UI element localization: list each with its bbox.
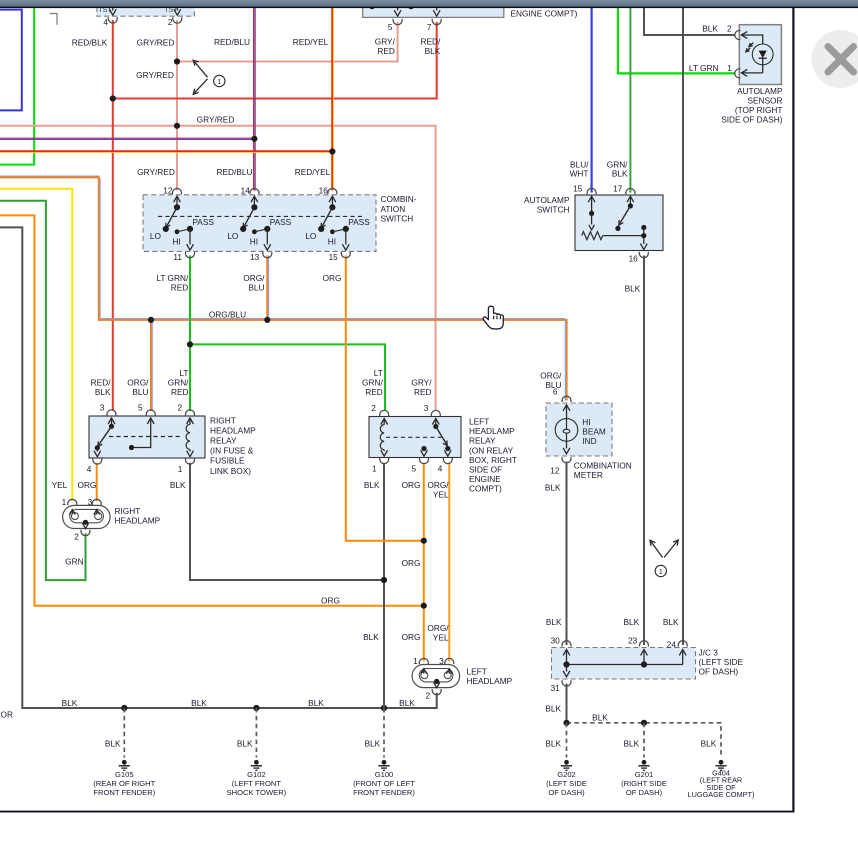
svg-text:(REAR OF RIGHT: (REAR OF RIGHT xyxy=(93,779,155,788)
right headlamp pin 2 xyxy=(74,520,90,542)
label ORG/BLU below pin 13 xyxy=(243,273,265,293)
label RIGHT HEADLAMP RELAY (IN FUSE & FUSIBLE LINK BOX) xyxy=(210,415,256,476)
svg-text:LUGGAGE COMPT): LUGGAGE COMPT) xyxy=(688,790,755,799)
svg-text:RED/BLK: RED/BLK xyxy=(72,38,108,48)
wire ORG from left edge to left headlamp feed xyxy=(0,215,424,605)
pin 7 of engine-compt box xyxy=(427,4,441,32)
node junction ORG/BLU at (267.3,319.9) xyxy=(264,317,270,323)
svg-text:BLK: BLK xyxy=(308,698,324,708)
label RIGHT HEADLAMP xyxy=(115,506,161,526)
svg-text:FRONT FENDER): FRONT FENDER) xyxy=(353,788,415,797)
label RED/YEL above pin 16 xyxy=(295,167,331,177)
svg-text:17: 17 xyxy=(613,184,623,194)
svg-text:(FRONT OF LEFT: (FRONT OF LEFT xyxy=(353,779,415,788)
autolamp switch box xyxy=(575,195,663,251)
label BLK mid left relay wire xyxy=(363,632,379,642)
svg-text:2: 2 xyxy=(74,532,79,542)
svg-text:SWITCH: SWITCH xyxy=(381,214,414,224)
svg-text:BLK: BLK xyxy=(545,738,561,748)
svg-text:23: 23 xyxy=(628,636,638,646)
svg-text:G102: G102 xyxy=(247,770,266,779)
label ORG/BLU above pin 6 xyxy=(540,370,562,390)
label LEFT HEADLAMP RELAY (ON RELAY BOX, RIGHT SIDE OF ENGINE COMPT) xyxy=(469,417,517,494)
svg-text:2: 2 xyxy=(371,403,376,413)
svg-text:RED: RED xyxy=(365,387,383,397)
label BLK on splice bus xyxy=(592,712,608,722)
autolamp switch pin 15 with resistor xyxy=(573,184,596,230)
svg-text:OF DASH): OF DASH) xyxy=(699,667,739,677)
label BLK drop G404 xyxy=(701,738,717,748)
connector box ENGINE COMPT (top right) xyxy=(363,0,504,17)
label BLK bus 4 xyxy=(399,698,415,708)
svg-text:3: 3 xyxy=(439,656,444,666)
label HI BEAM IND xyxy=(582,417,606,446)
label RED/BLU above pin 14 xyxy=(217,167,253,177)
svg-text:RELAY: RELAY xyxy=(210,436,237,446)
label BLK below pin 16 xyxy=(625,284,641,294)
svg-text:14: 14 xyxy=(241,186,251,196)
svg-text:BLK: BLK xyxy=(624,738,640,748)
node dot inside engine-compt box 2 xyxy=(408,3,414,9)
svg-text:GRY/: GRY/ xyxy=(411,377,432,387)
svg-text:HI: HI xyxy=(582,417,590,427)
label BLU/WHT xyxy=(570,159,590,178)
svg-text:RED: RED xyxy=(171,282,189,292)
label RED/BLK (pin 7) xyxy=(420,36,441,56)
wire RED/BLK from pin 7 xyxy=(113,22,437,99)
pin 4 of header box xyxy=(103,4,117,27)
wire GRY/RED horizontal branch to left relay xyxy=(0,126,436,411)
right relay pin 5 common xyxy=(129,403,155,450)
wire BLK right vertical to J/C 3 pin 24 xyxy=(682,7,684,645)
label BLK bus 1 xyxy=(62,698,78,708)
svg-text:SIDE OF: SIDE OF xyxy=(469,465,502,475)
footnote arrow 1 (top) xyxy=(193,60,225,94)
combination switch mechanical link (dashed) xyxy=(158,215,362,217)
pin 6 label of combination meter xyxy=(553,386,558,396)
svg-text:15: 15 xyxy=(573,184,583,194)
wire GRY/RED from pin 2 down to COMBINATION SWITCH pin 12 xyxy=(176,20,178,191)
node junction ORG/BLU at (151,319.9) xyxy=(148,317,154,323)
svg-text:RED/YEL: RED/YEL xyxy=(295,167,331,177)
svg-text:LINK BOX): LINK BOX) xyxy=(210,466,251,476)
node J/C3 junction at pin 23 xyxy=(641,661,647,667)
svg-text:3: 3 xyxy=(88,497,93,507)
svg-text:HEADLAMP: HEADLAMP xyxy=(210,425,256,435)
svg-text:4: 4 xyxy=(438,463,443,473)
svg-text:GRY/RED: GRY/RED xyxy=(197,115,235,125)
svg-text:GRY/: GRY/ xyxy=(375,36,396,46)
wire RED/YEL vertical to COMBINATION SWITCH pin 16 xyxy=(332,7,333,191)
wire GRN from left edge to RIGHT HEADLAMP pin 2 xyxy=(0,201,86,580)
wire LT GRN/RED branch to left relay pin 2 xyxy=(190,344,385,411)
svg-text:HI: HI xyxy=(172,236,180,246)
svg-text:BLK: BLK xyxy=(105,738,121,748)
svg-text:G202: G202 xyxy=(557,770,576,779)
wire ORG/YEL left relay pin 4 to LEFT HEADLAMP pin 3 xyxy=(448,463,450,661)
wire ORG right relay pin 4 to RIGHT HEADLAMP pin 3 xyxy=(96,463,98,501)
left headlamp pin 1 xyxy=(413,656,428,674)
wire BLK dashed drop to G102 xyxy=(255,708,257,758)
label ENGINE COMPT) xyxy=(511,9,578,19)
svg-text:HI: HI xyxy=(250,236,258,246)
svg-text:4: 4 xyxy=(87,464,92,474)
svg-text:LO: LO xyxy=(305,231,317,241)
svg-text:YEL: YEL xyxy=(433,489,449,499)
node junction RED/YEL at (332.4,151.4) xyxy=(329,148,335,154)
hi beam indicator lamp xyxy=(555,396,578,463)
wire RED/YEL horizontal from left edge xyxy=(0,151,332,152)
label GRN/BLK xyxy=(607,159,628,178)
label RED/BLK above right relay pin 3 xyxy=(91,377,112,397)
svg-text:RED/: RED/ xyxy=(91,377,112,387)
node junction ORG at (423.8,605.7) xyxy=(421,603,427,609)
svg-text:BLU: BLU xyxy=(248,282,264,292)
label BLK above J/C3 pin 24 xyxy=(663,617,679,627)
svg-text:(LEFT SIDE: (LEFT SIDE xyxy=(546,779,587,788)
left relay coil pin 2 to pin 1 xyxy=(371,403,389,473)
svg-text:ORG: ORG xyxy=(323,273,342,283)
svg-text:RED: RED xyxy=(414,387,432,397)
svg-text:GRY/RED: GRY/RED xyxy=(136,70,174,80)
svg-text:ORG/: ORG/ xyxy=(243,273,265,283)
svg-text:LEFT: LEFT xyxy=(469,417,489,427)
svg-text:OF DASH): OF DASH) xyxy=(548,788,585,797)
switch unit 2 (pins 14/13) with LO/HI/PASS xyxy=(227,186,291,262)
node junction LT GRN/RED at (190,344.4) xyxy=(187,341,193,347)
left relay pin 4 contact xyxy=(438,446,453,473)
ground G404 xyxy=(688,760,755,799)
label GRY/RED mid xyxy=(136,70,174,80)
svg-text:HEADLAMP: HEADLAMP xyxy=(469,426,515,436)
wire GRY/RED from pin 5 xyxy=(177,22,398,62)
label BLK bus 2 xyxy=(191,698,207,708)
svg-text:RIGHT: RIGHT xyxy=(210,415,236,425)
node junction BLK bus at G102 tap xyxy=(253,705,259,711)
wire BLK dashed splice bus to grounds xyxy=(567,723,722,758)
label BLK below right relay pin 1 xyxy=(170,480,186,490)
pin 5 of engine-compt box xyxy=(388,4,402,32)
node junction BLK bus at G105 tap xyxy=(121,705,127,711)
label LT GRN/RED below pin 11 xyxy=(156,273,189,293)
label BLK below left relay pin 1 xyxy=(364,480,380,490)
svg-text:AUTOLAMP: AUTOLAMP xyxy=(524,195,570,205)
label ORG/BLU on horizontal wire xyxy=(209,309,246,319)
label ORG above left headlamp pin 1 xyxy=(402,632,421,642)
svg-text:HI: HI xyxy=(328,236,336,246)
svg-text:RIGHT: RIGHT xyxy=(115,506,141,516)
node junction ORG at (423.8,540.7) xyxy=(421,538,427,544)
svg-text:BLU: BLU xyxy=(132,387,148,397)
wire BLK right relay pin 1 xyxy=(190,463,384,580)
svg-text:GRN: GRN xyxy=(65,557,83,567)
svg-text:SENSOR: SENSOR xyxy=(747,96,782,106)
ground G201 xyxy=(621,760,667,797)
svg-text:LEFT: LEFT xyxy=(467,667,487,677)
wire GRN/BLK to AUTOLAMP SWITCH pin 17 xyxy=(629,7,631,193)
node junction BLK bus at G100 tap xyxy=(381,705,387,711)
svg-text:J/C 3: J/C 3 xyxy=(699,647,719,657)
svg-text:1: 1 xyxy=(217,79,221,86)
svg-text:BLK: BLK xyxy=(625,284,641,294)
svg-text:RELAY: RELAY xyxy=(469,436,496,446)
right headlamp bulb outline xyxy=(63,505,111,528)
svg-text:13: 13 xyxy=(250,252,260,262)
svg-text:GRN/: GRN/ xyxy=(362,377,383,387)
label OR fragment at left edge xyxy=(1,710,13,720)
svg-text:BLK: BLK xyxy=(365,738,381,748)
svg-text:SWITCH: SWITCH xyxy=(537,204,570,214)
combination meter box (dashed) xyxy=(546,403,612,456)
label RED/BLK xyxy=(72,38,108,48)
svg-text:RED/BLU: RED/BLU xyxy=(217,167,253,177)
label ORG/YEL below left relay pin 4 xyxy=(427,480,449,500)
label RED/YEL xyxy=(293,37,329,47)
wire YEL from left edge to RIGHT HEADLAMP pin 1 xyxy=(0,189,72,502)
svg-text:RED/YEL: RED/YEL xyxy=(293,37,329,47)
wire LT GRN left-edge vertical xyxy=(0,7,34,165)
left headlamp bulb outline xyxy=(412,665,460,688)
svg-text:ORG/: ORG/ xyxy=(127,377,149,387)
svg-text:(LEFT FRONT: (LEFT FRONT xyxy=(232,779,282,788)
svg-text:ORG: ORG xyxy=(321,595,340,605)
svg-text:RED: RED xyxy=(377,46,395,56)
wire BLU/WHT to AUTOLAMP SWITCH pin 15 xyxy=(590,7,592,193)
svg-text:BLK: BLK xyxy=(545,482,561,492)
label LT GRN/RED above left relay pin 2 xyxy=(362,368,383,397)
svg-text:12: 12 xyxy=(550,466,560,476)
svg-text:BLK: BLK xyxy=(546,617,562,627)
svg-text:(IN FUSE &: (IN FUSE & xyxy=(210,446,254,456)
label BLK above J/C3 pin 30 xyxy=(546,617,562,627)
wire BLK dashed drop to G202 xyxy=(566,723,568,758)
svg-text:METER: METER xyxy=(574,470,603,480)
svg-text:GRN/: GRN/ xyxy=(168,377,189,387)
svg-text:COMPT): COMPT) xyxy=(469,484,502,494)
node junction RED/BLK at (112.8,98.5) xyxy=(110,95,116,101)
wire BLK to AUTOLAMP SENSOR pin 2 xyxy=(644,7,735,35)
svg-text:SHOCK TOWER): SHOCK TOWER) xyxy=(227,788,287,797)
label COMBINATION SWITCH xyxy=(381,194,417,224)
node junction GRY/RED at (177,61.5) xyxy=(174,58,180,64)
svg-text:(ON RELAY: (ON RELAY xyxy=(469,445,514,455)
svg-text:RED/: RED/ xyxy=(420,36,441,46)
svg-text:G105: G105 xyxy=(115,770,134,779)
label LEFT HEADLAMP xyxy=(467,667,513,687)
svg-text:2: 2 xyxy=(727,24,732,34)
svg-text:12: 12 xyxy=(163,186,173,196)
svg-text:11: 11 xyxy=(173,252,182,262)
svg-text:WHT: WHT xyxy=(570,169,589,179)
svg-text:LT GRN: LT GRN xyxy=(689,63,719,73)
svg-text:BLK: BLK xyxy=(191,698,207,708)
label COMBINATION METER xyxy=(574,460,632,480)
autolamp switch pin 16 contact xyxy=(629,225,649,264)
node junction BLK splice at (644,722.8) xyxy=(641,720,647,726)
svg-text:BLK: BLK xyxy=(425,46,441,56)
svg-text:BLK: BLK xyxy=(663,617,679,627)
label BLK drop G102 xyxy=(237,738,253,748)
svg-text:ORG/BLU: ORG/BLU xyxy=(209,309,246,319)
svg-text:5: 5 xyxy=(411,463,416,473)
top toolbar band xyxy=(0,0,858,8)
svg-text:FUSIBLE: FUSIBLE xyxy=(210,456,245,466)
left headlamp relay box xyxy=(369,417,461,458)
svg-text:31: 31 xyxy=(551,683,561,693)
wire BLK J/C 3 pin 31 to ground splice xyxy=(566,684,568,723)
svg-text:FRONT FENDER): FRONT FENDER) xyxy=(93,788,155,797)
label TST fragment 2 xyxy=(164,7,178,14)
svg-text:BLK: BLK xyxy=(399,698,415,708)
wire ORG left relay pin 5 to LEFT HEADLAMP pin 1 xyxy=(423,463,425,661)
svg-text:4: 4 xyxy=(103,17,108,27)
svg-text:PASS: PASS xyxy=(270,217,292,227)
svg-text:ORG: ORG xyxy=(402,480,421,490)
junction connector J/C 3 box (dashed) xyxy=(552,648,696,680)
svg-text:ENGINE COMPT): ENGINE COMPT) xyxy=(511,9,578,19)
label AUTOLAMP SWITCH xyxy=(524,195,570,215)
svg-text:BLK: BLK xyxy=(612,169,628,179)
svg-text:BLK: BLK xyxy=(364,480,380,490)
label BLK drop G100 xyxy=(365,738,381,748)
svg-text:1: 1 xyxy=(727,63,732,73)
svg-text:LT: LT xyxy=(179,368,188,378)
autolamp sensor pin 2 xyxy=(702,24,740,40)
svg-text:BLK: BLK xyxy=(95,387,111,397)
svg-text:LO: LO xyxy=(150,231,162,241)
svg-text:3: 3 xyxy=(100,403,105,413)
svg-text:BLK: BLK xyxy=(170,480,186,490)
svg-text:ORG: ORG xyxy=(402,632,421,642)
autolamp switch pin 17 lever xyxy=(613,184,635,231)
wire BLK dashed drop to G100 xyxy=(383,708,385,758)
label TST fragment 1 xyxy=(98,7,112,14)
label GRY/RED on horizontal wire xyxy=(197,115,235,125)
wire ORG from COMBINATION SWITCH pin 15 xyxy=(346,256,424,541)
diagram bottom border xyxy=(0,811,795,813)
left relay pin 5 contact xyxy=(411,446,428,473)
svg-text:LO: LO xyxy=(227,231,239,241)
label RED/BLU xyxy=(214,37,250,47)
autolamp sensor light arrows xyxy=(746,43,754,52)
svg-text:BLK: BLK xyxy=(701,738,717,748)
label BLK below J/C3 pin 31 xyxy=(545,703,561,713)
svg-text:ORG/: ORG/ xyxy=(540,370,562,380)
right headlamp pin 1 xyxy=(62,497,77,515)
wire RED/BLU vertical to COMBINATION SWITCH pin 14 xyxy=(254,7,255,191)
wire BLK COMBINATION METER pin 12 to J/C 3 pin 30 xyxy=(566,462,568,646)
svg-text:IND: IND xyxy=(582,436,596,446)
connector header box (top left, dashed) xyxy=(97,0,194,16)
label YEL below right relay xyxy=(52,480,68,490)
label ORG/YEL above left headlamp pin 3 xyxy=(427,623,449,643)
pin 12 label of combination meter xyxy=(550,466,560,476)
right headlamp pin 3 xyxy=(88,497,102,515)
wire LT GRN to AUTOLAMP SENSOR pin 1 xyxy=(618,7,735,73)
svg-text:24: 24 xyxy=(667,640,677,650)
wire BLK AUTOLAMP SWITCH pin 16 to J/C 3 pin 23 xyxy=(643,256,645,646)
label J/C 3 (LEFT SIDE OF DASH) xyxy=(699,647,744,676)
label ORG/BLU above right relay pin 5 xyxy=(127,377,149,397)
svg-text:BLK: BLK xyxy=(545,703,561,713)
svg-text:YEL: YEL xyxy=(52,480,68,490)
svg-text:15: 15 xyxy=(329,252,339,262)
svg-text:RED: RED xyxy=(171,387,189,397)
svg-text:ORG/: ORG/ xyxy=(427,480,449,490)
J/C 3 pin 24 xyxy=(667,640,687,656)
right relay pin 3 lever xyxy=(95,403,116,451)
left headlamp pin 2 xyxy=(425,679,441,701)
label ORG below right relay pin 4 xyxy=(77,480,96,490)
wire ORG/BLU from COMBINATION SWITCH pin 13 xyxy=(267,256,268,320)
svg-text:PASS: PASS xyxy=(192,217,214,227)
node junction BLK splice at (566.5,722.8) xyxy=(563,720,569,726)
J/C 3 pin 23 xyxy=(628,636,648,656)
svg-text:GRY/RED: GRY/RED xyxy=(137,38,175,48)
svg-text:SIDE OF DASH): SIDE OF DASH) xyxy=(721,115,783,125)
label GRY/RED above pin 12 xyxy=(137,167,175,177)
svg-text:(RIGHT SIDE: (RIGHT SIDE xyxy=(621,779,667,788)
svg-text:1: 1 xyxy=(62,497,67,507)
diagram right border xyxy=(792,7,794,812)
svg-text:5: 5 xyxy=(138,403,143,413)
svg-text:OR: OR xyxy=(1,710,13,720)
svg-text:COMBINATION: COMBINATION xyxy=(574,460,632,470)
J/C 3 internal bus xyxy=(567,651,683,665)
wire ORG/BLU branch to right relay pin 5 xyxy=(151,320,152,411)
close button xyxy=(812,30,858,88)
label GRN xyxy=(65,557,83,567)
footnote arrow 1 (right) xyxy=(650,540,678,577)
right relay mechanical link (dashed) xyxy=(109,436,183,438)
svg-text:G100: G100 xyxy=(375,770,394,779)
combination switch box xyxy=(143,195,376,252)
svg-text:2: 2 xyxy=(177,403,182,413)
wire BLK dashed drop to G201 xyxy=(643,723,645,758)
resistor inside autolamp switch xyxy=(582,232,644,240)
label ORG below pin 15 xyxy=(323,273,342,283)
svg-text:BLK: BLK xyxy=(624,617,640,627)
ground G100 xyxy=(353,760,415,797)
ground G105 xyxy=(93,760,155,797)
svg-text:ORG: ORG xyxy=(77,480,96,490)
node dot inside engine-compt box 1 xyxy=(369,3,375,9)
svg-text:(TOP RIGHT: (TOP RIGHT xyxy=(735,105,783,115)
switch unit 3 (pins 16/15) with LO/HI/PASS xyxy=(305,186,370,262)
label BLK above J/C3 pin 23 xyxy=(624,617,640,627)
svg-text:1: 1 xyxy=(413,656,418,666)
svg-text:G201: G201 xyxy=(635,770,654,779)
svg-text:2: 2 xyxy=(425,691,430,701)
svg-text:AUTOLAMP: AUTOLAMP xyxy=(737,86,783,96)
wire BLK dashed drop to G105 xyxy=(123,708,125,758)
svg-text:ATION: ATION xyxy=(381,204,406,214)
svg-text:(LEFT SIDE: (LEFT SIDE xyxy=(699,657,744,667)
svg-text:ENGINE: ENGINE xyxy=(469,474,501,484)
svg-text:RED/BLU: RED/BLU xyxy=(214,37,250,47)
ground G102 xyxy=(227,760,287,797)
ground G202 xyxy=(546,760,587,797)
svg-text:7: 7 xyxy=(427,22,432,32)
label GRY/RED (pin 5) xyxy=(375,36,396,56)
svg-text:BEAM: BEAM xyxy=(582,427,606,437)
label BLK drop G105 xyxy=(105,738,121,748)
pin 2 of header box xyxy=(168,4,182,27)
left relay mechanical link (dashed) xyxy=(386,436,443,438)
right headlamp relay box xyxy=(89,416,205,458)
right relay coil pin 2 to pin 1 xyxy=(177,403,194,474)
wire LT GRN/RED from COMBINATION SWITCH pin 11 to relays pin 2 xyxy=(189,256,191,412)
